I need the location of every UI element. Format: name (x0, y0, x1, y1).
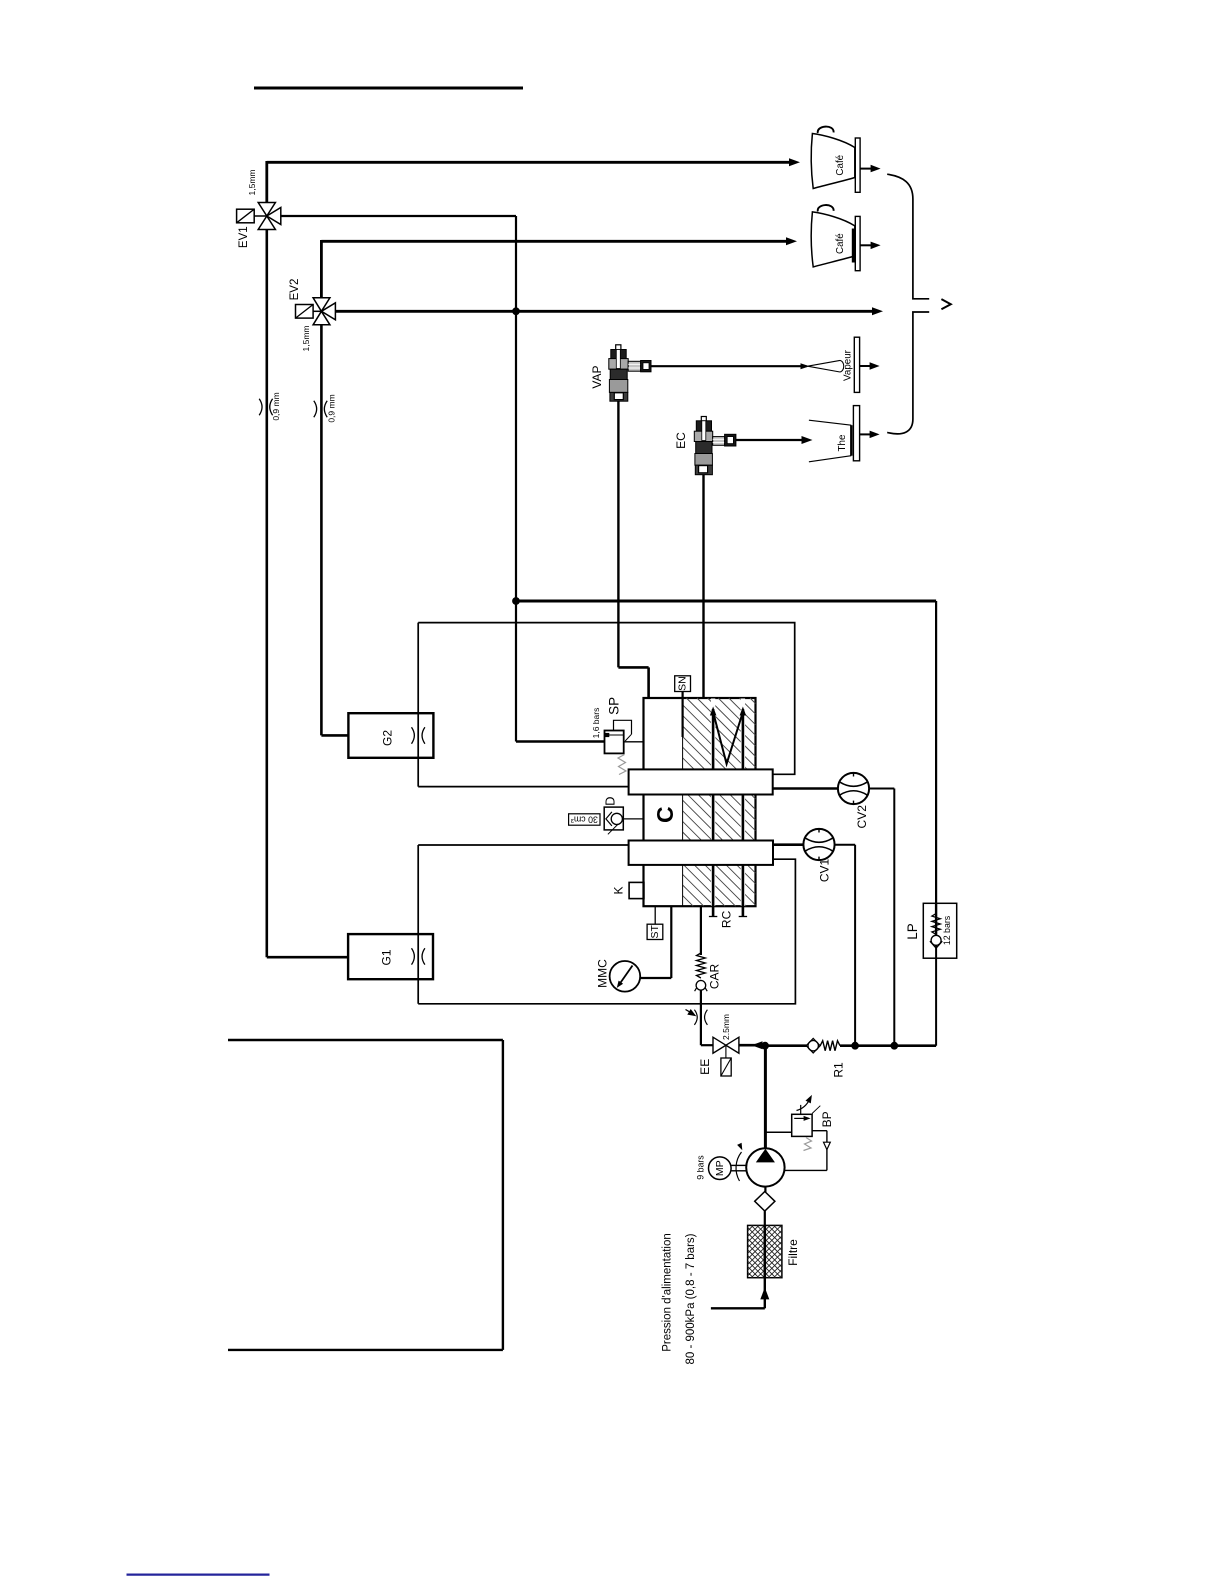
label Cafe 2 (835, 233, 846, 254)
wire boiler drain CAR (701, 906, 713, 1045)
legend box (228, 1040, 503, 1350)
wire VAP outlet (651, 365, 807, 367)
svg-text:1,5mm: 1,5mm (301, 326, 311, 352)
label 9 bars (696, 1155, 706, 1180)
level probe SN box (675, 676, 691, 692)
fitting K (629, 882, 644, 898)
wire water inlet (711, 1278, 765, 1309)
svg-text:1,5mm: 1,5mm (247, 170, 257, 196)
svg-text:0,9 mm: 0,9 mm (271, 392, 281, 420)
steam cone (808, 360, 844, 372)
label 0,9 mm EV2 (327, 394, 337, 422)
wire EV2 down to G2 (321, 325, 348, 736)
gicleur on CAR line (694, 1010, 707, 1025)
label MMC (595, 959, 609, 988)
wire discharge manifold (516, 601, 936, 903)
svg-text:Café: Café (835, 154, 846, 175)
steam tap VAP (609, 345, 651, 401)
label 80 - 900kPa (685, 1233, 697, 1364)
wire EC outlet (736, 439, 803, 441)
label EE (698, 1059, 712, 1075)
svg-text:30 cm³: 30 cm³ (571, 815, 598, 825)
drain collector upper (887, 174, 929, 299)
label 0,9 mm EV1 (271, 392, 281, 420)
thermostat ST box (647, 924, 663, 939)
title underline (254, 87, 523, 90)
label C boiler (652, 806, 678, 823)
label 1,5mm EV1 (247, 170, 257, 196)
flowmeter CV2 (838, 773, 869, 804)
group head G1 (348, 934, 433, 979)
pressure limiter LP box (923, 903, 956, 958)
svg-text:Vapeur: Vapeur (843, 349, 854, 381)
label G2 (381, 730, 395, 746)
wire CV1 return (835, 845, 856, 1046)
gicleur in G2 (412, 727, 425, 743)
svg-text:G2: G2 (381, 730, 395, 746)
label 1,6 bars (591, 708, 601, 739)
svg-text:LP: LP (905, 923, 920, 940)
wire EC stem to boiler (702, 475, 704, 698)
label K (612, 886, 626, 894)
label EC (674, 432, 688, 449)
tray drain arrow (860, 165, 881, 173)
wire band2 to CV1 (773, 843, 804, 846)
svg-text:2.5mm: 2.5mm (721, 1014, 731, 1040)
group head G2 (348, 713, 433, 758)
tray drain arrow (860, 362, 880, 370)
svg-text:1,6 bars: 1,6 bars (591, 708, 601, 739)
svg-text:80 - 900kPa (0,8 - 7 bars): 80 - 900kPa (0,8 - 7 bars) (685, 1233, 697, 1364)
label VAP (590, 365, 604, 388)
wire boiler feed (516, 740, 605, 743)
arrowhead into tea (802, 436, 813, 444)
arrowhead EE (752, 1041, 763, 1049)
thermostat ST wire (654, 906, 656, 924)
node junction CV1 return (851, 1042, 859, 1050)
suction diamond (755, 1187, 775, 1226)
arrow restrictor flow (686, 1009, 697, 1016)
arrowhead into cafe 1 (789, 158, 800, 166)
svg-text:BP: BP (820, 1111, 834, 1127)
svg-text:SP: SP (606, 697, 621, 715)
svg-text:MMC: MMC (595, 959, 609, 988)
label CV1 (818, 859, 832, 883)
wire EV1 outlet (281, 215, 516, 217)
heat exchanger band 2 (629, 841, 773, 865)
wire circuit loop G2 (418, 623, 795, 787)
boiler C body (644, 698, 756, 906)
label MP (714, 1160, 726, 1176)
label G1 (380, 949, 394, 965)
svg-text:Café: Café (835, 233, 846, 254)
check valve R1 (806, 1038, 840, 1053)
bypass valve BP (765, 1095, 820, 1151)
label The (837, 434, 848, 451)
label D (603, 797, 618, 806)
hot water tap EC (694, 417, 736, 475)
svg-text:K: K (612, 886, 626, 894)
pressure limiter LP valve (930, 903, 942, 1045)
tray vapeur (854, 337, 859, 392)
node junction CV2 return (890, 1042, 898, 1050)
svg-text:EV2: EV2 (289, 279, 301, 301)
gicleur 0,9 mm on EV2 line (314, 401, 327, 417)
gauge MP (709, 1157, 747, 1180)
svg-text:CAR: CAR (708, 964, 722, 990)
svg-text:CV1: CV1 (818, 859, 832, 883)
flowmeter CV1 (803, 829, 834, 860)
svg-text:MP: MP (714, 1160, 726, 1176)
check valve CAR (695, 953, 708, 991)
label ST (649, 925, 661, 939)
drain outlet chevron (941, 299, 950, 309)
arrowhead drain line (872, 307, 883, 315)
heating element RC legs (709, 707, 747, 917)
svg-text:9 bars: 9 bars (696, 1155, 706, 1180)
expansion valve EE (713, 1037, 739, 1076)
heat exchanger band 1 (629, 769, 773, 794)
gicleur in G1 (412, 948, 425, 964)
label CAR (708, 964, 722, 990)
label R1 (831, 1062, 845, 1078)
svg-text:12 bars: 12 bars (942, 915, 952, 945)
label 30 cm3 box (569, 814, 600, 825)
wire SP to boiler (624, 741, 645, 743)
svg-text:G1: G1 (380, 949, 394, 965)
tray drain arrow (860, 242, 881, 250)
wire CV2 return (869, 789, 894, 1046)
gicleur 0,9 mm on EV1 line (259, 399, 272, 415)
solenoid valve EV2 (296, 298, 336, 325)
svg-text:RC: RC (720, 910, 734, 928)
svg-text:EV1: EV1 (238, 226, 250, 248)
label 1,5mm EV2 (301, 326, 311, 352)
filter Filtre (748, 1225, 782, 1277)
wire EV2 discharge to drain (336, 310, 874, 313)
wire pump feed (764, 1046, 767, 1149)
vacuum breaker D (604, 807, 623, 834)
svg-text:Pression d'alimentation: Pression d'alimentation (662, 1233, 674, 1352)
svg-text:EE: EE (698, 1059, 712, 1075)
wire band1 to CV2 (773, 787, 838, 790)
label Vapeur (843, 349, 854, 381)
footer rule (127, 1573, 270, 1575)
label 12 bars (942, 915, 952, 945)
svg-text:CV2: CV2 (855, 805, 869, 829)
svg-text:SN: SN (677, 676, 689, 691)
wire VAP stem to boiler (618, 401, 648, 698)
wire common riser x516 (515, 216, 517, 742)
svg-text:C: C (652, 806, 678, 823)
svg-text:R1: R1 (831, 1062, 845, 1078)
label Cafe 1 (835, 154, 846, 175)
tray the (853, 406, 859, 461)
wire EV1 down to G1 (267, 230, 348, 958)
node junction pump top (761, 1042, 769, 1050)
node junction discharge (512, 597, 520, 605)
label Filtre (786, 1239, 800, 1266)
svg-text:Filtre: Filtre (786, 1239, 800, 1266)
level probe SN wire (681, 692, 683, 738)
label LP (905, 923, 920, 940)
svg-text:0,9 mm: 0,9 mm (327, 394, 337, 422)
cup cafe 1 (811, 127, 860, 193)
arrowhead into cafe 2 (786, 237, 797, 245)
label EV1 (238, 226, 250, 248)
safety valve SP (605, 720, 632, 774)
drain collector lower (887, 312, 929, 434)
tray drain arrow (860, 431, 880, 439)
gauge MMC (610, 961, 641, 992)
node junction EV1/EV2 drain (512, 307, 520, 315)
wire EV2 to cafe 2 (321, 240, 788, 299)
label CV2 (855, 805, 869, 829)
svg-text:VAP: VAP (590, 365, 604, 388)
heating element RC vee (713, 712, 743, 764)
svg-text:EC: EC (674, 432, 688, 449)
svg-text:The: The (837, 434, 848, 451)
svg-text:ST: ST (649, 925, 661, 939)
svg-text:D: D (603, 797, 618, 806)
arrowhead steam jet (801, 363, 810, 369)
label SP (606, 697, 621, 715)
label Pression d'alimentation (662, 1233, 674, 1352)
wire EE outlet (739, 1044, 765, 1047)
wire bottom manifold (765, 1044, 936, 1047)
wire MMC to boiler (640, 906, 671, 978)
wire circuit loop G1 (418, 845, 795, 1004)
tea glass (809, 420, 851, 462)
label BP (820, 1111, 834, 1127)
solenoid valve EV1 (237, 203, 281, 230)
label 2.5mm (721, 1014, 731, 1040)
wire EV1 to cafe 1 (267, 161, 791, 203)
arrowhead inlet (760, 1287, 769, 1299)
label EV2 (289, 279, 301, 301)
pump body MP (736, 1143, 785, 1187)
wire D to boiler (623, 818, 643, 820)
label SN (677, 676, 689, 691)
label RC (720, 910, 734, 928)
wire BP loop (785, 1131, 831, 1171)
cup cafe 2 (811, 205, 860, 271)
